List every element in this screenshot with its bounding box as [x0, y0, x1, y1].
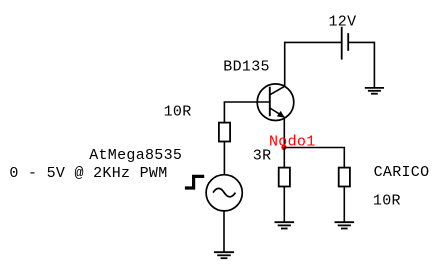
node Nodo1 junction dot	[281, 145, 286, 150]
svg-text:10R: 10R	[164, 103, 192, 120]
ground (3R)	[275, 222, 295, 228]
wire battery to ground	[349, 42, 374, 87]
wire base	[224, 102, 269, 123]
battery V1 short plate	[347, 33, 349, 51]
wire node to load branch	[284, 148, 344, 168]
wire collector to battery	[285, 42, 341, 86]
ground (CARICO)	[335, 222, 355, 228]
svg-text:10R: 10R	[373, 193, 401, 210]
svg-text:3R: 3R	[253, 148, 272, 165]
svg-text:CARICO: CARICO	[374, 164, 430, 181]
wire emitter to node	[283, 117, 285, 148]
wire source to ground	[223, 211, 225, 252]
battery V1 long plate	[341, 27, 343, 60]
resistor R3 CARICO 10R	[339, 168, 350, 187]
svg-text:BD135: BD135	[223, 59, 270, 76]
voltage source VS1	[206, 175, 242, 211]
resistor R1 10R (base)	[219, 123, 230, 142]
svg-text:0 - 5V @ 2KHz PWM: 0 - 5V @ 2KHz PWM	[9, 165, 167, 182]
ground (battery)	[365, 88, 384, 94]
svg-text:AtMega8535: AtMega8535	[89, 147, 182, 164]
wire 3R to ground	[283, 187, 285, 223]
wire node to 3R	[283, 148, 285, 168]
resistor R2 3R	[279, 168, 290, 187]
wire resistor to source	[223, 142, 225, 176]
wire CARICO to ground	[343, 187, 345, 223]
pulse step symbol	[185, 176, 204, 188]
ground (source)	[214, 252, 234, 258]
transistor Q1	[257, 84, 294, 121]
